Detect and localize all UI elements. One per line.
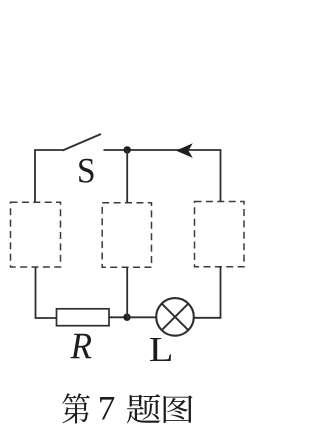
label L (150, 338, 171, 361)
wire: left vertical lower and bottom-left corner (left box to resistor) (36, 267, 57, 318)
node: bottom junction dot (123, 314, 130, 321)
dashed box 3 (right component placeholder) (195, 202, 245, 267)
wire: lamp to bottom-right corner and right vertical lower (194, 267, 221, 318)
caption: 第 7 题图 (62, 393, 192, 423)
wire: middle vertical upper (top node down to middle box) (126, 150, 128, 203)
dashed box 2 (middle component placeholder) (102, 203, 151, 268)
label S (79, 159, 93, 183)
wire: bottom node to lamp (127, 316, 157, 318)
resistor R rectangle (57, 309, 110, 326)
node: top junction dot (124, 146, 131, 153)
wire: top horizontal segment (switch to top-right corner, through node) (104, 150, 221, 202)
dashed box 1 (left component placeholder) (11, 202, 61, 267)
switch S open blade (63, 134, 102, 151)
label R (70, 334, 91, 358)
wire: middle vertical lower (middle box down to bottom node) (126, 267, 128, 317)
lamp L (circle with X) (156, 298, 194, 336)
arrow: current direction (pointing left) on top-right wire (176, 143, 193, 158)
wire: resistor to bottom node (109, 316, 127, 318)
wire: top-left horizontal segment (left corner to switch pivot) (35, 150, 63, 202)
